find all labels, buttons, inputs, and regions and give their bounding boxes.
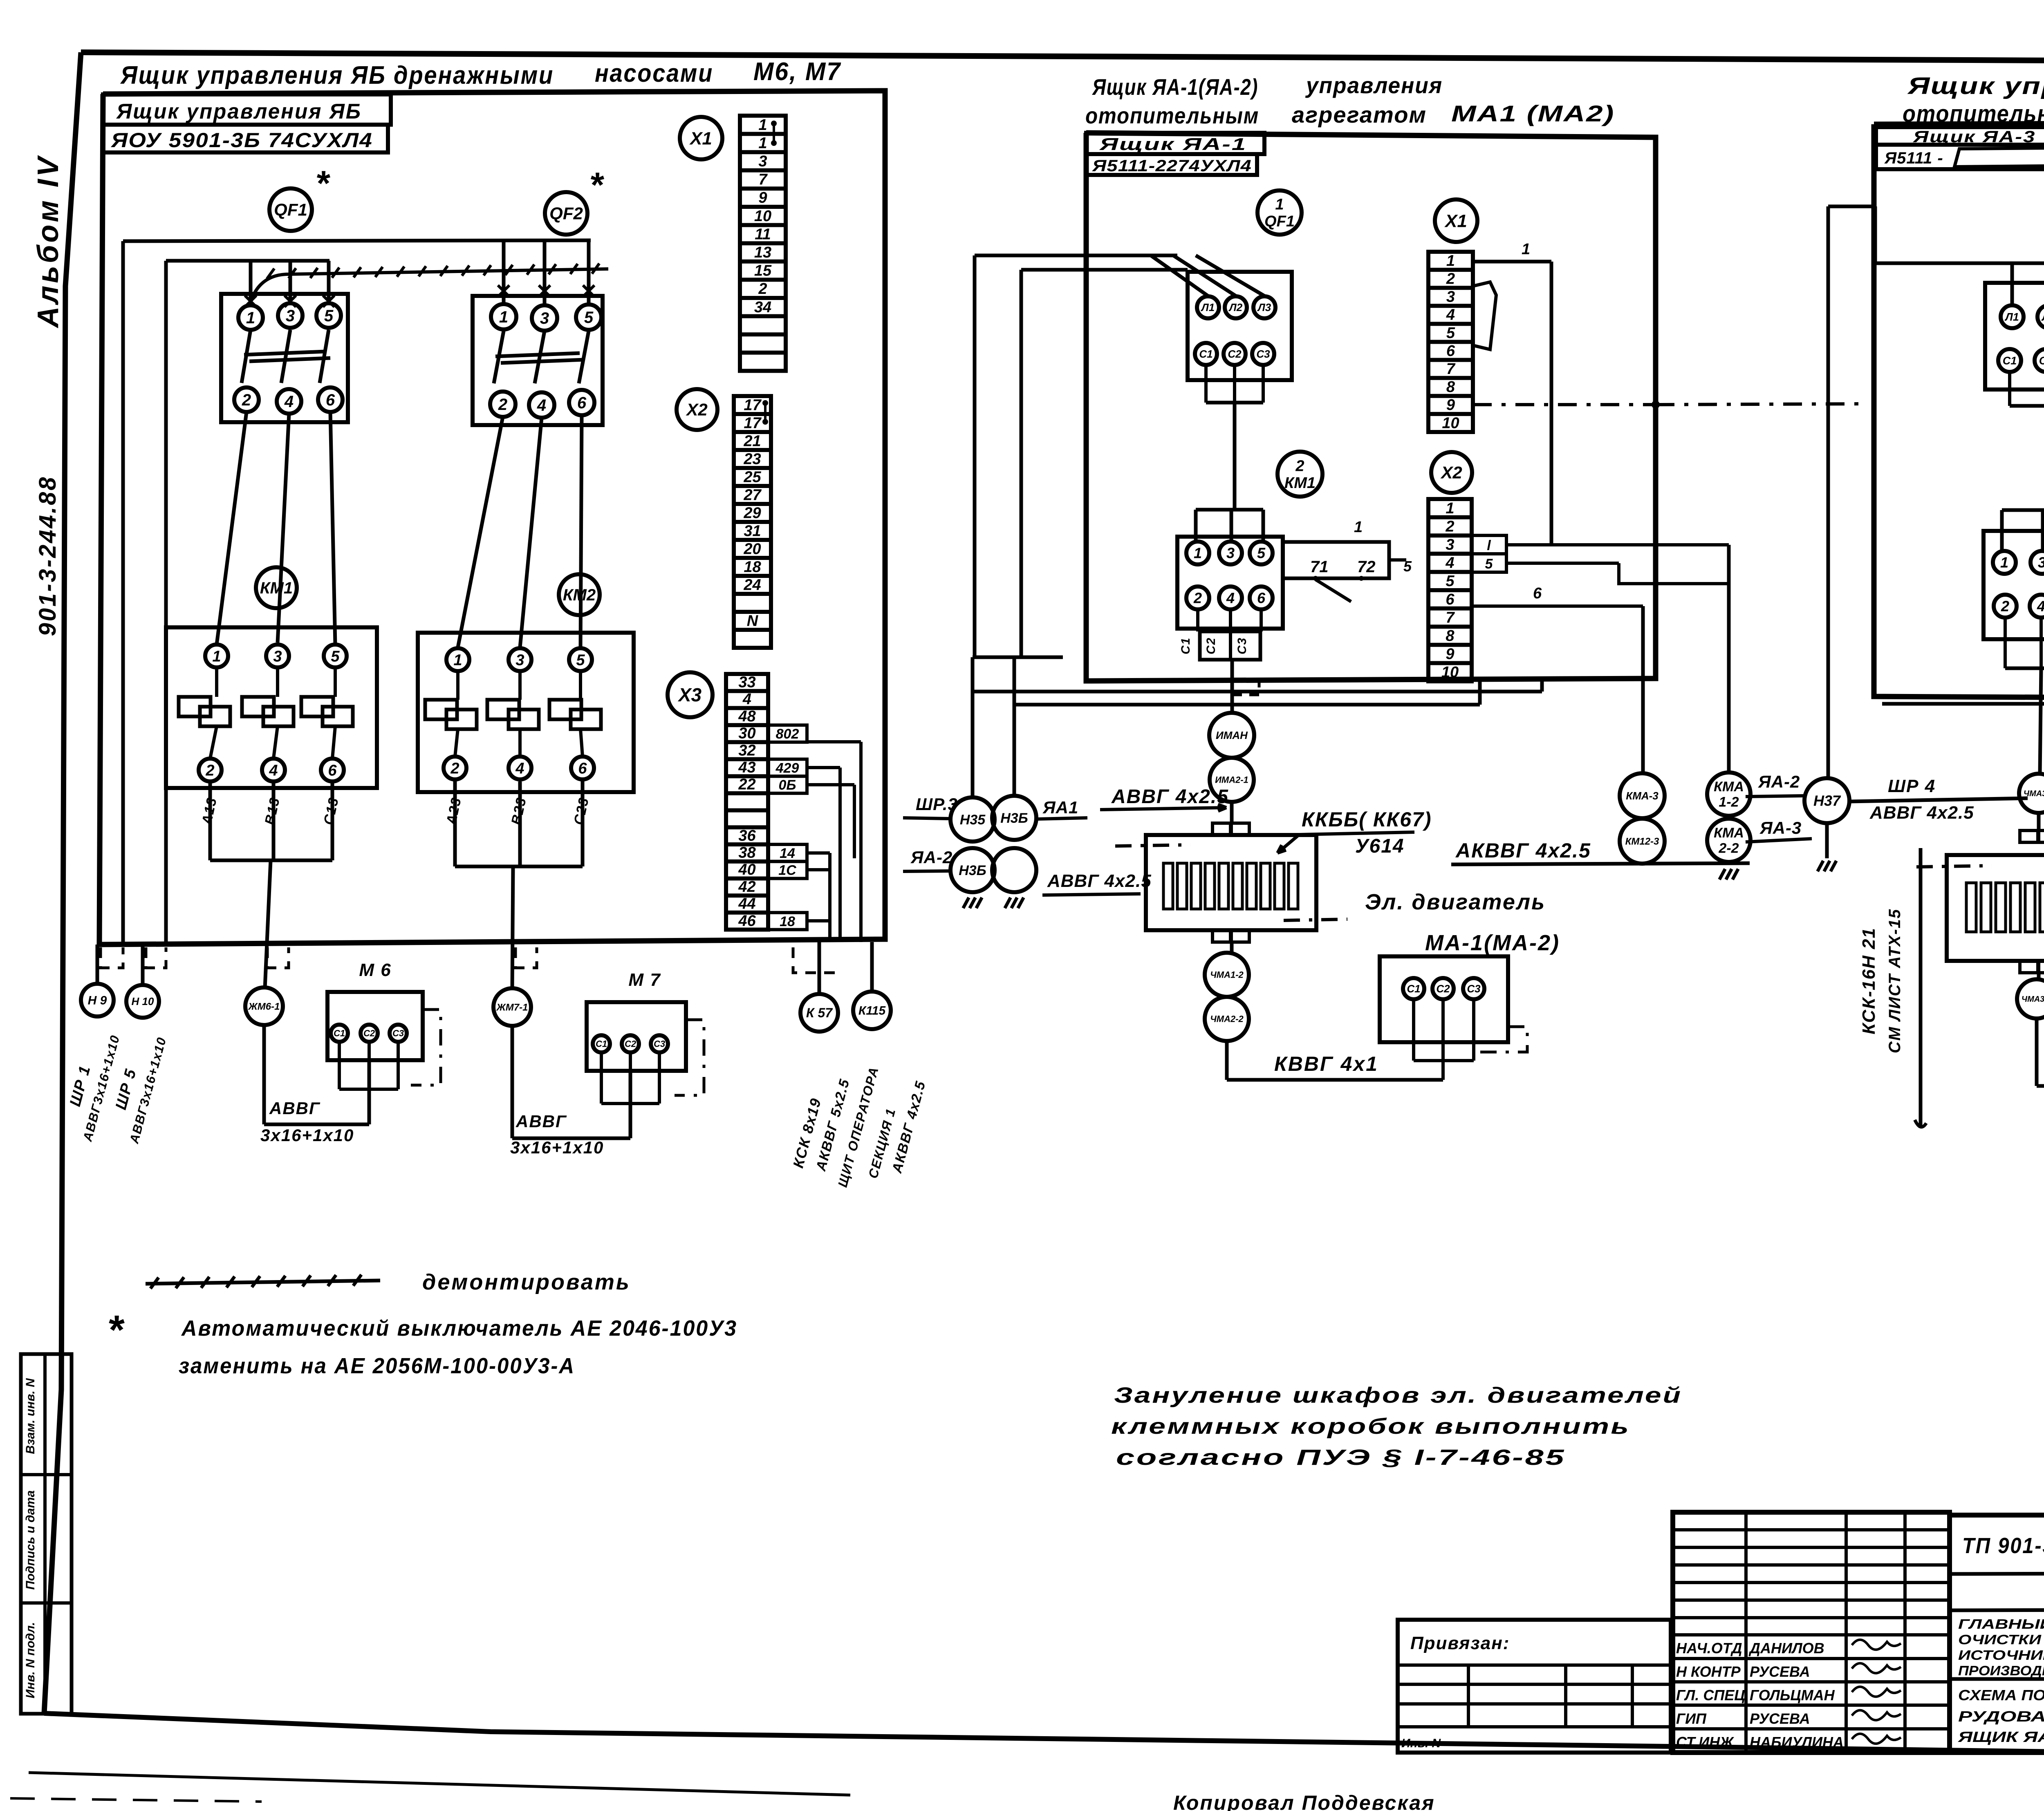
svg-text:С2: С2 bbox=[1436, 983, 1450, 995]
svg-text:СХЕМА ПОДКЛЮЧЕНИЯ ЭЛЕКТРООБО-: СХЕМА ПОДКЛЮЧЕНИЯ ЭЛЕКТРООБО- bbox=[1958, 1687, 2044, 1704]
svg-text:2: 2 bbox=[1193, 590, 1202, 607]
svg-text:46: 46 bbox=[738, 912, 756, 929]
svg-text:ГЛ. СПЕЦ: ГЛ. СПЕЦ bbox=[1676, 1687, 1745, 1704]
svg-text:21: 21 bbox=[743, 432, 761, 450]
svg-text:40: 40 bbox=[738, 861, 755, 878]
svg-text:29: 29 bbox=[743, 504, 761, 522]
svg-text:АВВГ: АВВГ bbox=[269, 1099, 320, 1118]
svg-text:5: 5 bbox=[1446, 325, 1455, 342]
svg-text:4: 4 bbox=[2037, 598, 2044, 615]
svg-text:5: 5 bbox=[1446, 573, 1455, 590]
svg-text:С1: С1 bbox=[1199, 348, 1213, 360]
svg-text:Л1: Л1 bbox=[2004, 311, 2019, 323]
svg-text:4: 4 bbox=[269, 762, 278, 779]
svg-text:Зануление шкафов эл. д: Зануление шкафов эл. двигателей bbox=[1114, 1383, 1682, 1408]
svg-text:Л2: Л2 bbox=[1228, 301, 1243, 313]
svg-text:4: 4 bbox=[1226, 590, 1235, 607]
svg-text:Ящик управления ЯА3: Ящик управления ЯА3 bbox=[1907, 73, 2044, 99]
svg-text:31: 31 bbox=[744, 522, 761, 539]
svg-text:управления: управления bbox=[1305, 72, 1443, 98]
svg-text:КМ12-3: КМ12-3 bbox=[1625, 836, 1659, 847]
svg-text:2: 2 bbox=[450, 760, 459, 777]
svg-text:3: 3 bbox=[1446, 289, 1455, 306]
svg-text:5: 5 bbox=[324, 307, 334, 325]
svg-text:ЯА-2: ЯА-2 bbox=[910, 848, 953, 867]
svg-text:КМ1: КМ1 bbox=[1284, 475, 1316, 492]
svg-text:3: 3 bbox=[273, 648, 282, 665]
svg-text:1: 1 bbox=[1522, 241, 1530, 258]
svg-text:С3: С3 bbox=[1235, 637, 1249, 654]
svg-text:2: 2 bbox=[242, 391, 251, 409]
svg-text:ГИП: ГИП bbox=[1676, 1710, 1707, 1727]
svg-text:СТ.ИНЖ: СТ.ИНЖ bbox=[1676, 1734, 1734, 1751]
svg-text:25: 25 bbox=[743, 468, 761, 486]
svg-text:3: 3 bbox=[540, 309, 549, 327]
svg-text:ПРОИЗВОДИТЕЛЬНОСТЬЮ 12.5тыс.м3: ПРОИЗВОДИТЕЛЬНОСТЬЮ 12.5тыс.м3/сут bbox=[1958, 1663, 2044, 1678]
svg-text:3: 3 bbox=[1226, 545, 1235, 562]
svg-text:48: 48 bbox=[738, 708, 756, 725]
svg-text:С1: С1 bbox=[334, 1028, 345, 1039]
svg-text:N: N bbox=[747, 612, 759, 629]
svg-text:АВВГ: АВВГ bbox=[515, 1112, 567, 1131]
svg-text:ШР 4: ШР 4 bbox=[1888, 776, 1936, 796]
svg-text:5: 5 bbox=[584, 309, 594, 327]
svg-text:1: 1 bbox=[758, 134, 767, 152]
svg-text:4: 4 bbox=[515, 760, 524, 777]
svg-text:АВВГ 4х2.5: АВВГ 4х2.5 bbox=[1047, 871, 1152, 891]
svg-text:демонтировать: демонтировать bbox=[422, 1270, 631, 1294]
svg-text:АВВГ 4х2.5: АВВГ 4х2.5 bbox=[1111, 786, 1229, 808]
svg-text:3: 3 bbox=[515, 651, 524, 669]
svg-text:5: 5 bbox=[576, 651, 585, 669]
svg-text:Ящик ЯА-3: Ящик ЯА-3 bbox=[1913, 128, 2036, 146]
svg-text:ЖМ7-1: ЖМ7-1 bbox=[496, 1002, 528, 1013]
svg-text:Н3Б: Н3Б bbox=[959, 863, 986, 878]
svg-text:1: 1 bbox=[1446, 500, 1454, 517]
svg-text:Ящик ЯА-1: Ящик ЯА-1 bbox=[1099, 134, 1247, 154]
svg-text:С3: С3 bbox=[1256, 348, 1270, 360]
svg-text:5: 5 bbox=[1403, 558, 1412, 575]
svg-text:Н КОНТР: Н КОНТР bbox=[1676, 1663, 1741, 1680]
svg-text:КМА: КМА bbox=[1714, 779, 1744, 795]
svg-text:Инв. N подл.: Инв. N подл. bbox=[24, 1622, 37, 1699]
svg-text:6: 6 bbox=[326, 391, 335, 409]
svg-text:КМА: КМА bbox=[1714, 825, 1744, 841]
svg-text:ШР.3: ШР.3 bbox=[916, 795, 958, 814]
svg-text:44: 44 bbox=[738, 895, 755, 913]
svg-text:*: * bbox=[107, 1307, 125, 1353]
svg-text:3: 3 bbox=[2038, 554, 2044, 571]
svg-text:ДАНИЛОВ: ДАНИЛОВ bbox=[1748, 1640, 1824, 1657]
svg-text:1: 1 bbox=[246, 309, 255, 327]
svg-text:С2: С2 bbox=[625, 1039, 637, 1049]
svg-text:6: 6 bbox=[1446, 591, 1455, 608]
svg-text:3: 3 bbox=[1446, 536, 1454, 553]
svg-text:15: 15 bbox=[754, 262, 772, 280]
svg-text:С3: С3 bbox=[392, 1028, 404, 1039]
svg-text:ЧМА3-2: ЧМА3-2 bbox=[2022, 995, 2044, 1004]
svg-text:9: 9 bbox=[1446, 396, 1455, 414]
svg-text:7: 7 bbox=[758, 171, 768, 188]
svg-text:24: 24 bbox=[743, 576, 761, 593]
svg-text:0Б: 0Б bbox=[779, 777, 796, 793]
svg-text:X2: X2 bbox=[686, 400, 707, 419]
svg-text:Н37: Н37 bbox=[1813, 792, 1841, 809]
svg-text:429: 429 bbox=[775, 761, 799, 776]
svg-text:Взам. инв. N: Взам. инв. N bbox=[24, 1378, 37, 1454]
svg-text:4: 4 bbox=[537, 396, 546, 414]
svg-text:ЧМА3-1: ЧМА3-1 bbox=[2024, 789, 2044, 798]
svg-text:РУДОВАНИЯ. ЯЩИК ЯБ: РУДОВАНИЯ. ЯЩИК ЯБ bbox=[1958, 1708, 2044, 1725]
svg-text:согласно ПУЭ § I-7-46-8: согласно ПУЭ § I-7-46-85 bbox=[1116, 1445, 1566, 1470]
svg-text:17: 17 bbox=[744, 414, 762, 432]
svg-text:С2: С2 bbox=[1204, 637, 1218, 654]
svg-text:1-2: 1-2 bbox=[1719, 795, 1739, 810]
svg-text:2: 2 bbox=[758, 280, 767, 298]
svg-text:МА1 (МА2): МА1 (МА2) bbox=[1451, 101, 1615, 126]
svg-text:ЯА-2: ЯА-2 bbox=[1758, 772, 1800, 791]
svg-text:АВВГ 4х2.5: АВВГ 4х2.5 bbox=[1869, 803, 1974, 823]
svg-text:23: 23 bbox=[743, 450, 761, 468]
svg-text:9: 9 bbox=[758, 189, 767, 206]
svg-text:42: 42 bbox=[738, 878, 755, 895]
svg-text:30: 30 bbox=[738, 725, 755, 742]
svg-text:71: 71 bbox=[1310, 558, 1329, 576]
svg-text:ЧМА1-2: ЧМА1-2 bbox=[1210, 970, 1244, 980]
svg-text:Н3Б: Н3Б bbox=[1000, 810, 1028, 826]
svg-text:6: 6 bbox=[1533, 585, 1542, 602]
svg-text:ЯЩИК ЯА1,(ЯА2) ЯА3.: ЯЩИК ЯА1,(ЯА2) ЯА3. bbox=[1958, 1728, 2044, 1745]
svg-text:802: 802 bbox=[776, 726, 799, 742]
svg-text:ИСТОЧНИКОВ МУТНОСТЬЮ 1500мг/л: ИСТОЧНИКОВ МУТНОСТЬЮ 1500мг/л bbox=[1958, 1648, 2044, 1663]
svg-text:1: 1 bbox=[453, 651, 462, 669]
svg-text:КМА-3: КМА-3 bbox=[1626, 790, 1659, 802]
svg-text:С1: С1 bbox=[1179, 637, 1192, 654]
svg-text:QF1: QF1 bbox=[1264, 213, 1295, 230]
svg-text:X3: X3 bbox=[677, 684, 702, 705]
svg-text:ЯА-3: ЯА-3 bbox=[1759, 818, 1802, 837]
svg-text:5: 5 bbox=[1257, 545, 1266, 562]
svg-text:К115: К115 bbox=[858, 1004, 886, 1018]
svg-text:С2: С2 bbox=[363, 1028, 375, 1039]
svg-text:отопительным: отопительным bbox=[1085, 103, 1259, 128]
svg-text:НАБИУЛИНА: НАБИУЛИНА bbox=[1750, 1734, 1844, 1751]
svg-text:14: 14 bbox=[780, 846, 795, 861]
svg-text:С1: С1 bbox=[2003, 354, 2017, 367]
svg-text:1: 1 bbox=[1275, 196, 1284, 213]
svg-text:С2: С2 bbox=[1228, 348, 1242, 360]
svg-text:1: 1 bbox=[212, 648, 221, 665]
svg-text:18: 18 bbox=[780, 914, 795, 929]
svg-text:РУСЕВА: РУСЕВА bbox=[1750, 1663, 1810, 1680]
svg-text:2: 2 bbox=[1445, 518, 1454, 535]
svg-text:насосами: насосами bbox=[595, 59, 713, 87]
svg-text:2-2: 2-2 bbox=[1718, 841, 1739, 856]
svg-text:901-3-244.88: 901-3-244.88 bbox=[34, 475, 61, 636]
svg-text:ЧМА2-2: ЧМА2-2 bbox=[1210, 1014, 1244, 1024]
svg-text:Эл. двигатель: Эл. двигатель bbox=[1365, 890, 1546, 914]
svg-text:М 7: М 7 bbox=[628, 970, 661, 990]
svg-text:3х16+1х10: 3х16+1х10 bbox=[510, 1138, 604, 1157]
svg-text:13: 13 bbox=[754, 244, 771, 261]
svg-text:27: 27 bbox=[743, 486, 762, 504]
svg-text:7: 7 bbox=[1446, 609, 1455, 626]
svg-text:Я5111-2274УХЛ4: Я5111-2274УХЛ4 bbox=[1092, 157, 1252, 175]
svg-text:X1: X1 bbox=[689, 128, 712, 148]
svg-text:С2: С2 bbox=[2039, 354, 2044, 367]
svg-text:10: 10 bbox=[1442, 414, 1459, 432]
svg-text:СМ ЛИСТ АТХ-15: СМ ЛИСТ АТХ-15 bbox=[1886, 909, 1904, 1053]
svg-text:ККББ( КК67): ККББ( КК67) bbox=[1302, 808, 1432, 831]
svg-text:КВВГ 4х1: КВВГ 4х1 bbox=[1274, 1052, 1378, 1075]
svg-text:АКВВГ 4х2.5: АКВВГ 4х2.5 bbox=[1455, 839, 1591, 862]
svg-text:1: 1 bbox=[758, 116, 767, 134]
svg-text:2: 2 bbox=[1295, 457, 1304, 475]
svg-text:43: 43 bbox=[738, 759, 755, 776]
svg-text:Копировал Поддевская: Копировал Поддевская bbox=[1173, 1791, 1435, 1811]
svg-text:Привязан:: Привязан: bbox=[1410, 1633, 1510, 1653]
svg-text:2: 2 bbox=[1446, 270, 1455, 287]
svg-text:X2: X2 bbox=[1440, 463, 1462, 482]
svg-text:18: 18 bbox=[744, 558, 761, 575]
svg-text:2: 2 bbox=[205, 762, 214, 779]
svg-text:l: l bbox=[1487, 538, 1491, 553]
svg-text:5: 5 bbox=[331, 648, 340, 665]
svg-text:ГЛАВНЫЙ КОРПУС ДЛЯ СТАНЦИИ: ГЛАВНЫЙ КОРПУС ДЛЯ СТАНЦИИ bbox=[1958, 1616, 2044, 1632]
svg-text:С3: С3 bbox=[1467, 983, 1481, 995]
svg-text:6: 6 bbox=[328, 762, 337, 779]
svg-text:ТП 901-3 - 244.88: ТП 901-3 - 244.88 bbox=[1962, 1533, 2044, 1558]
svg-text:4: 4 bbox=[284, 393, 294, 411]
svg-text:Л1: Л1 bbox=[1201, 301, 1215, 313]
svg-text:7: 7 bbox=[1446, 360, 1456, 378]
svg-text:33: 33 bbox=[738, 674, 755, 691]
svg-text:ЯОУ 5901-3Б 74СУХЛ4: ЯОУ 5901-3Б 74СУХЛ4 bbox=[110, 129, 373, 152]
svg-text:34: 34 bbox=[754, 299, 771, 316]
svg-text:Я5111 -: Я5111 - bbox=[1884, 149, 1943, 167]
svg-text:К 57: К 57 bbox=[806, 1005, 833, 1020]
svg-text:1: 1 bbox=[2000, 554, 2008, 571]
svg-text:QF2: QF2 bbox=[549, 204, 583, 224]
svg-text:2: 2 bbox=[2001, 598, 2009, 615]
svg-text:10: 10 bbox=[754, 208, 771, 225]
svg-text:22: 22 bbox=[738, 776, 755, 793]
svg-text:6: 6 bbox=[1257, 590, 1266, 607]
svg-text:ЖМ6-1: ЖМ6-1 bbox=[248, 1001, 280, 1012]
svg-text:Ящик ЯА-1(ЯА-2): Ящик ЯА-1(ЯА-2) bbox=[1091, 74, 1258, 100]
svg-text:Н 9: Н 9 bbox=[88, 994, 107, 1007]
svg-text:6: 6 bbox=[577, 394, 587, 412]
svg-text:X1: X1 bbox=[1444, 211, 1467, 231]
svg-text:1: 1 bbox=[1354, 519, 1363, 536]
svg-text:клеммных коробок выполн: клеммных коробок выполнить bbox=[1111, 1414, 1630, 1439]
svg-text:М 6: М 6 bbox=[359, 960, 391, 980]
svg-text:6: 6 bbox=[578, 760, 587, 777]
svg-text:3: 3 bbox=[286, 307, 295, 325]
svg-text:4: 4 bbox=[1446, 307, 1455, 324]
svg-text:9: 9 bbox=[1446, 646, 1454, 663]
svg-text:8: 8 bbox=[1446, 378, 1455, 396]
svg-text:КМ1: КМ1 bbox=[260, 579, 293, 597]
svg-text:РУСЕВА: РУСЕВА bbox=[1750, 1710, 1810, 1727]
svg-text:заменить на АЕ 2056М-100-00: заменить на АЕ 2056М-100-00У3-А bbox=[179, 1354, 575, 1378]
svg-text:2: 2 bbox=[498, 396, 507, 414]
svg-text:ОЧИСТКИ ВОДЫ ПОВЕРХНОСТНЫХ: ОЧИСТКИ ВОДЫ ПОВЕРХНОСТНЫХ bbox=[1958, 1632, 2044, 1647]
svg-text:С3: С3 bbox=[654, 1039, 665, 1049]
svg-text:Л2: Л2 bbox=[2041, 311, 2044, 323]
svg-text:8: 8 bbox=[1446, 627, 1455, 645]
svg-text:1: 1 bbox=[1446, 252, 1455, 269]
svg-text:У614: У614 bbox=[1355, 835, 1405, 857]
svg-text:QF1: QF1 bbox=[274, 200, 307, 220]
svg-text:ИМАН: ИМАН bbox=[1216, 729, 1248, 741]
svg-text:4: 4 bbox=[1445, 555, 1454, 572]
svg-text:С1: С1 bbox=[596, 1039, 607, 1049]
svg-text:агрегатом: агрегатом bbox=[1292, 102, 1427, 128]
svg-text:ЯА1: ЯА1 bbox=[1042, 798, 1078, 817]
svg-text:Н35: Н35 bbox=[960, 812, 986, 828]
svg-text:Альбом IV: Альбом IV bbox=[32, 154, 65, 328]
svg-text:ГОЛЬЦМАН: ГОЛЬЦМАН bbox=[1750, 1687, 1835, 1704]
svg-text:НАЧ.ОТД: НАЧ.ОТД bbox=[1676, 1640, 1742, 1657]
svg-text:4: 4 bbox=[742, 691, 751, 708]
svg-text:5: 5 bbox=[1485, 556, 1493, 572]
svg-text:11: 11 bbox=[755, 226, 771, 243]
svg-text:КМ2: КМ2 bbox=[563, 586, 596, 604]
svg-text:3: 3 bbox=[758, 153, 767, 170]
svg-text:17: 17 bbox=[744, 396, 762, 414]
svg-text:10: 10 bbox=[1441, 664, 1459, 681]
svg-text:*: * bbox=[589, 166, 604, 205]
svg-text:36: 36 bbox=[738, 827, 756, 844]
svg-text:С1: С1 bbox=[1407, 983, 1420, 995]
svg-text:Автоматический выключатель: Автоматический выключатель АЕ 2046-100У3 bbox=[181, 1316, 737, 1341]
svg-text:6: 6 bbox=[1446, 343, 1455, 360]
svg-text:МА-1(МА-2): МА-1(МА-2) bbox=[1425, 931, 1560, 955]
svg-text:20: 20 bbox=[743, 540, 761, 557]
svg-text:Л3: Л3 bbox=[1257, 301, 1271, 313]
svg-text:Н 10: Н 10 bbox=[132, 995, 154, 1007]
svg-text:Ящик управления ЯБ: Ящик управления ЯБ bbox=[116, 100, 362, 123]
svg-text:Подпись и дата: Подпись и дата bbox=[24, 1490, 37, 1589]
svg-text:1С: 1С bbox=[778, 863, 796, 878]
svg-text:1: 1 bbox=[1194, 545, 1202, 562]
svg-text:72: 72 bbox=[1357, 558, 1376, 576]
svg-text:1: 1 bbox=[499, 308, 508, 326]
svg-text:Инв. N: Инв. N bbox=[1401, 1737, 1441, 1750]
svg-text:3х16+1х10: 3х16+1х10 bbox=[260, 1126, 354, 1145]
svg-text:32: 32 bbox=[738, 742, 755, 759]
svg-text:*: * bbox=[315, 164, 330, 203]
svg-text:38: 38 bbox=[738, 844, 756, 862]
svg-text:КСК-16Н 21: КСК-16Н 21 bbox=[1859, 927, 1879, 1034]
svg-text:ИМА2-1: ИМА2-1 bbox=[1215, 775, 1248, 785]
svg-text:Ящик управления ЯБ дренажны: Ящик управления ЯБ дренажными bbox=[120, 61, 554, 90]
svg-text:М6, М7: М6, М7 bbox=[753, 58, 841, 86]
